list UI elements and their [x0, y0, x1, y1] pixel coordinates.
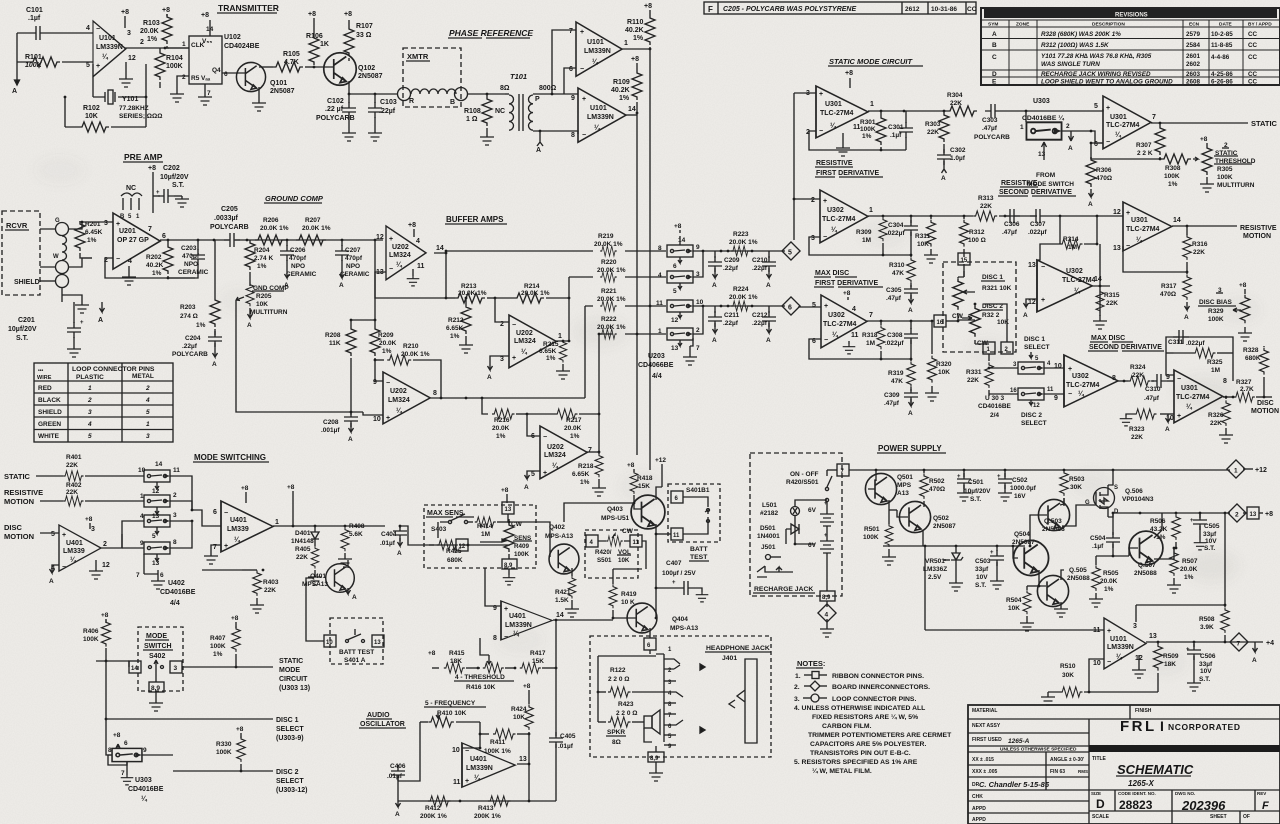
box13 +8 — [501, 487, 514, 522]
svg-text:R213: R213 — [461, 283, 477, 290]
svg-text:A: A — [908, 410, 913, 417]
svg-text:LM339: LM339 — [227, 526, 249, 533]
NOTES title — [796, 659, 825, 668]
svg-text:+8: +8 — [113, 732, 121, 739]
svg-text:U202: U202 — [547, 444, 564, 451]
svg-text:V₅₅: V₅₅ — [202, 38, 212, 45]
svg-text:9: 9 — [140, 540, 144, 547]
row3/4 outputs — [693, 305, 785, 334]
svg-text:R324: R324 — [1130, 364, 1146, 371]
resistor R311 — [915, 216, 938, 263]
svg-text:STATIC: STATIC — [279, 658, 303, 665]
svg-text:U101: U101 — [1110, 636, 1127, 643]
svg-text:D: D — [1096, 797, 1105, 811]
RESISTIVE MOTION input — [4, 488, 144, 506]
svg-text:−: − — [1177, 376, 1181, 383]
svg-text:202396: 202396 — [1181, 798, 1226, 813]
resistor R313 — [973, 195, 1037, 221]
svg-text:13: 13 — [1028, 262, 1036, 269]
resistor R408 — [338, 523, 365, 567]
svg-text:PLASTIC: PLASTIC — [76, 374, 104, 381]
capacitor C407 — [655, 560, 709, 602]
svg-text:1%: 1% — [1168, 181, 1178, 188]
svg-text:8: 8 — [571, 132, 575, 139]
svg-text:2: 2 — [811, 197, 815, 204]
svg-text:−: − — [824, 337, 828, 344]
loop connector circle R — [398, 88, 415, 106]
svg-text:77.28KHZ: 77.28KHZ — [119, 105, 149, 112]
threshold row R415 — [428, 650, 479, 673]
U401 pin7 wire — [204, 545, 221, 564]
svg-text:470Ω: 470Ω — [1160, 291, 1176, 298]
resistor R110 — [625, 3, 655, 49]
svg-text:1%: 1% — [213, 651, 223, 658]
svg-text:MAX DISC: MAX DISC — [815, 270, 849, 277]
wire pin3 vertical from diamond5 — [794, 93, 816, 240]
svg-text:−: − — [386, 380, 390, 387]
resistor R508 — [1199, 605, 1229, 642]
svg-text:100K: 100K — [1164, 173, 1180, 180]
row2 bus — [569, 276, 666, 278]
svg-text:LOOP CONNECTOR PINS: LOOP CONNECTOR PINS — [72, 366, 155, 373]
svg-text:LM324: LM324 — [388, 397, 410, 404]
ground static A — [836, 133, 850, 156]
svg-text:11-8-85: 11-8-85 — [1211, 42, 1233, 49]
op-amp U301 disc motion — [1166, 370, 1227, 423]
svg-text:1%: 1% — [450, 333, 460, 340]
transistor Q403 — [564, 495, 665, 529]
MAX SENS title — [426, 510, 474, 517]
svg-text:U102: U102 — [224, 34, 241, 41]
wire R406 node down — [105, 661, 112, 755]
title block frame — [968, 705, 1280, 824]
svg-text:−: − — [1126, 243, 1130, 250]
svg-text:2608: 2608 — [1186, 79, 1201, 86]
box 8,9 recharge — [820, 591, 835, 607]
Q101 emitter ground — [252, 87, 266, 111]
svg-text:+8: +8 — [631, 56, 639, 63]
svg-text:CAPACITORS ARE 5% POLYESTER: CAPACITORS ARE 5% POLYESTER. — [810, 741, 926, 748]
resistor R417 — [514, 619, 558, 673]
resistor R328 — [1243, 346, 1269, 398]
svg-text:+8: +8 — [236, 726, 244, 733]
svg-text:−: − — [512, 322, 516, 329]
resistor R501 — [863, 500, 897, 565]
svg-text:.01µf: .01µf — [387, 773, 403, 780]
resistor R310 — [889, 254, 915, 287]
svg-text:R202: R202 — [146, 254, 162, 261]
svg-text:BATT: BATT — [690, 546, 708, 553]
svg-text:R122: R122 — [610, 667, 626, 674]
svg-text:33µf: 33µf — [975, 566, 989, 573]
svg-text:U302: U302 — [1072, 373, 1089, 380]
resistor R402 — [63, 482, 83, 506]
change strip F row — [704, 2, 977, 14]
svg-text:VR501: VR501 — [925, 558, 945, 565]
capacitor C307 — [1028, 209, 1123, 236]
svg-text:11K: 11K — [329, 340, 341, 347]
svg-text:1%: 1% — [1184, 574, 1194, 581]
svg-text:MULTITURN: MULTITURN — [250, 309, 288, 316]
U102 vss ground — [198, 84, 212, 105]
svg-text:20.0K: 20.0K — [564, 425, 582, 432]
J501 jack — [761, 544, 781, 560]
svg-text:R205: R205 — [256, 293, 272, 300]
FROM MODE SWITCH — [1027, 172, 1074, 188]
capacitor C301 — [888, 111, 913, 150]
svg-text:R325: R325 — [1207, 359, 1223, 366]
svg-text:6V: 6V — [808, 507, 817, 514]
svg-text:A: A — [352, 594, 357, 601]
svg-text:SPKR: SPKR — [607, 729, 625, 736]
resistor R107 — [344, 11, 373, 61]
svg-text:6: 6 — [160, 572, 164, 579]
svg-text:MOTION: MOTION — [1251, 408, 1279, 415]
svg-text:C211: C211 — [724, 312, 740, 319]
svg-text:1: 1 — [558, 333, 562, 340]
svg-text:+8: +8 — [201, 12, 209, 19]
transformer T101 — [500, 72, 557, 131]
svg-text:1 Ω: 1 Ω — [466, 116, 478, 123]
svg-text:5: 5 — [531, 471, 535, 478]
svg-text:+: + — [389, 236, 393, 243]
svg-text:.47µf: .47µf — [884, 400, 900, 407]
svg-text:2.74 K: 2.74 K — [254, 255, 273, 262]
op-amp U101 LM339N — [86, 21, 144, 77]
svg-text:BOARD INNERCONNECTORS.: BOARD INNERCONNECTORS. — [832, 684, 930, 691]
C504 node to Q507 base — [1096, 555, 1129, 558]
capacitor C304 — [886, 216, 918, 255]
svg-text:8: 8 — [493, 635, 497, 642]
svg-text:20.0K 1%: 20.0K 1% — [594, 241, 623, 248]
svg-text:.01µf: .01µf — [380, 540, 396, 547]
svg-text:LM339N: LM339N — [505, 622, 532, 629]
title PHASE REFERENCE — [448, 28, 533, 38]
svg-text:RECHARGE JACK: RECHARGE JACK — [754, 586, 813, 593]
capacitor C502 — [997, 470, 1037, 501]
diamond 6 connector — [782, 297, 800, 315]
svg-text:2601: 2601 — [1186, 53, 1201, 60]
svg-text:7: 7 — [148, 226, 152, 233]
svg-text:R105: R105 — [283, 51, 300, 58]
svg-text:RESISTIVE: RESISTIVE — [1001, 180, 1038, 187]
svg-text:R315: R315 — [1104, 292, 1120, 299]
svg-text:S401B1: S401B1 — [686, 487, 710, 494]
svg-text:10K: 10K — [513, 714, 525, 721]
svg-text:TLC-27M4: TLC-27M4 — [823, 321, 857, 328]
svg-text:3: 3 — [91, 526, 95, 533]
svg-text:FINISH: FINISH — [1135, 708, 1152, 714]
svg-text:+: + — [1126, 210, 1130, 217]
svg-text:GREEN: GREEN — [38, 421, 61, 428]
svg-text:R408: R408 — [349, 523, 365, 530]
svg-text:U302: U302 — [827, 207, 844, 214]
svg-text:.022µf: .022µf — [1186, 340, 1205, 347]
svg-text:A: A — [712, 282, 717, 289]
resistor R103 — [140, 7, 172, 48]
svg-text:1: 1 — [275, 519, 279, 526]
pin5 A arrow — [524, 471, 540, 491]
svg-text:15K: 15K — [638, 483, 650, 490]
svg-text:10V: 10V — [1200, 668, 1212, 675]
box4 connector — [586, 535, 598, 547]
svg-text:1: 1 — [1234, 468, 1238, 475]
svg-text:C204: C204 — [185, 335, 201, 342]
U202 ground comp 2 — [373, 372, 437, 424]
resistor R105 — [259, 51, 315, 72]
STATIC MODE CIRCUIT dest — [279, 658, 310, 692]
svg-text:.022µf: .022µf — [1028, 229, 1047, 236]
diamond 2 +8 — [1228, 504, 1273, 522]
svg-text:10: 10 — [326, 640, 333, 646]
svg-text:MPS-U51: MPS-U51 — [601, 515, 630, 522]
svg-text:CW: CW — [622, 528, 634, 535]
paper noise — [0, 0, 1, 1]
op-amp U202 ground comp 1 — [376, 222, 444, 286]
U401 disc out to row3 — [100, 521, 144, 548]
svg-text:R223: R223 — [733, 231, 749, 238]
svg-text:2612: 2612 — [905, 6, 920, 13]
node A below T101 — [536, 131, 543, 154]
svg-text:NPO: NPO — [291, 263, 305, 270]
svg-text:U402: U402 — [168, 580, 185, 587]
switch column box2 — [658, 271, 700, 295]
svg-text:CODE IDENT. NO.: CODE IDENT. NO. — [1118, 791, 1156, 796]
+8 preamp — [148, 165, 156, 213]
svg-text:R508: R508 — [1199, 616, 1215, 623]
svg-text:A: A — [766, 337, 771, 344]
svg-text:R220: R220 — [601, 259, 617, 266]
svg-text:8Ω: 8Ω — [612, 739, 621, 746]
box 8,9 headphone — [648, 746, 664, 781]
SCHEMATIC title — [1116, 762, 1194, 788]
svg-text:+: + — [1177, 413, 1181, 420]
svg-text:D: D — [992, 71, 997, 78]
battery 1 — [808, 501, 834, 534]
svg-text:3: 3 — [811, 235, 815, 242]
pin12 ground stub — [119, 62, 133, 87]
svg-text:A: A — [247, 322, 252, 329]
revision row C — [992, 53, 1258, 68]
resistor R202 — [146, 240, 173, 278]
svg-text:A: A — [98, 317, 103, 324]
resistor R403 — [242, 570, 279, 613]
wire static out STATIC — [1151, 119, 1278, 128]
note 4 — [794, 705, 952, 757]
svg-text:.1µf: .1µf — [1092, 543, 1104, 550]
svg-text:U303: U303 — [1033, 98, 1050, 105]
svg-text:S402: S402 — [149, 653, 165, 660]
svg-text:A: A — [348, 436, 353, 443]
resistor R222 — [597, 316, 626, 339]
svg-text:SECOND DERIVATIVE: SECOND DERIVATIVE — [1089, 344, 1162, 351]
svg-text:470Ω: 470Ω — [1096, 175, 1112, 182]
svg-text:2/4: 2/4 — [990, 412, 999, 419]
svg-text:2: 2 — [173, 492, 177, 499]
svg-text:Vₐₐ: Vₐₐ — [201, 75, 211, 82]
capacitor C210 — [752, 251, 776, 289]
U202#1 feedback loop — [375, 252, 447, 300]
svg-text:3: 3 — [88, 409, 92, 416]
svg-text:.1µf: .1µf — [28, 15, 41, 22]
svg-text:APPD: APPD — [972, 806, 986, 812]
svg-text:Q401: Q401 — [310, 573, 326, 580]
svg-text:+: + — [504, 606, 508, 613]
svg-text:+8: +8 — [121, 9, 129, 16]
Q503 emitter to gate — [1062, 505, 1096, 526]
resistor R312 — [960, 216, 986, 254]
svg-text:6: 6 — [213, 509, 217, 516]
STATIC input — [4, 472, 144, 481]
svg-text:BLACK: BLACK — [38, 397, 61, 404]
svg-text:(U303-12): (U303-12) — [276, 787, 308, 794]
DISC 1 label — [981, 274, 1012, 292]
U302 second deriv out — [1092, 244, 1110, 316]
svg-text:5: 5 — [86, 62, 90, 69]
title PRE AMP — [123, 152, 163, 162]
svg-text:1M: 1M — [862, 237, 871, 244]
svg-text:R224: R224 — [733, 286, 749, 293]
svg-text:20.0K 1%: 20.0K 1% — [302, 225, 331, 232]
svg-text:20.0K: 20.0K — [1180, 566, 1198, 573]
recharge contacts — [757, 566, 793, 577]
svg-text:100K: 100K — [1217, 174, 1233, 181]
svg-text:13: 13 — [505, 507, 512, 513]
svg-text:+12: +12 — [655, 457, 666, 464]
svg-text:D: D — [1114, 509, 1119, 515]
svg-text:6.65K: 6.65K — [539, 348, 557, 355]
DISC 2 SELECT switch — [989, 387, 1054, 427]
svg-text:7: 7 — [696, 345, 700, 352]
max disc feedback loop — [809, 339, 912, 360]
svg-text:F: F — [1262, 800, 1269, 812]
svg-text:BY / APPD: BY / APPD — [1248, 22, 1272, 28]
svg-text:1: 1 — [624, 40, 628, 47]
headphone jack dashed box — [590, 636, 771, 757]
DISC pots dashed box — [943, 262, 1016, 352]
svg-text:SELECT: SELECT — [1024, 344, 1050, 351]
resistor R318 — [862, 321, 885, 359]
svg-text:2: 2 — [145, 385, 150, 392]
svg-text:METAL: METAL — [132, 373, 154, 380]
svg-text:C503: C503 — [975, 558, 991, 565]
svg-text:−: − — [580, 66, 584, 73]
resistor R218 — [572, 452, 606, 496]
MAX SENS dashed box — [424, 505, 536, 568]
svg-text:R410 10K: R410 10K — [437, 710, 467, 717]
svg-text:1M: 1M — [866, 340, 875, 347]
capacitor C102 — [316, 94, 356, 141]
svg-text:R203: R203 — [180, 304, 196, 311]
svg-text:D501: D501 — [760, 525, 776, 532]
svg-text:TLC-27M4: TLC-27M4 — [1106, 122, 1140, 129]
svg-text:+8: +8 — [523, 683, 531, 690]
svg-text:TLC-27M4: TLC-27M4 — [1126, 226, 1160, 233]
svg-text:U101: U101 — [590, 105, 607, 112]
resistor R307 — [1136, 123, 1165, 159]
capacitor C205 — [210, 206, 249, 247]
svg-text:R222: R222 — [601, 316, 617, 323]
svg-text:R420/S501: R420/S501 — [786, 479, 819, 486]
size code row — [968, 790, 1280, 824]
svg-text:12: 12 — [1113, 209, 1121, 216]
resistor R221 — [597, 288, 626, 311]
svg-text:XXX ± .005: XXX ± .005 — [972, 769, 997, 775]
transistor Q102 — [314, 53, 383, 86]
R312 to box15 wire — [963, 254, 965, 265]
resistor R412 — [420, 796, 451, 820]
svg-text:MODE: MODE — [146, 633, 167, 640]
max disc 2nd out — [1118, 380, 1128, 383]
op-amp U101 supply comparator — [1093, 618, 1157, 669]
svg-text:+: + — [465, 778, 469, 785]
svg-text:10V: 10V — [1205, 538, 1217, 545]
svg-text:+8: +8 — [408, 222, 416, 229]
svg-text:Q.506: Q.506 — [1125, 488, 1143, 495]
wire R403 Q401 leftover — [202, 569, 264, 572]
svg-text:MPS: MPS — [897, 482, 912, 489]
svg-text:47K: 47K — [891, 378, 903, 385]
svg-text:+4: +4 — [1266, 640, 1274, 647]
svg-text:W: W — [53, 254, 59, 260]
resistor R315 — [1093, 289, 1120, 329]
max disc out bus — [867, 320, 933, 323]
U401 threshold comparator — [493, 601, 564, 642]
resistor R224 — [729, 286, 758, 311]
svg-text:U302: U302 — [828, 312, 845, 319]
capacitor C505 — [1190, 513, 1220, 552]
svg-text:+: + — [990, 550, 994, 556]
svg-text:14: 14 — [1094, 276, 1102, 283]
svg-text:RMS: RMS — [1078, 769, 1088, 774]
svg-text:MOTION: MOTION — [1243, 233, 1271, 240]
BATT TEST label — [689, 546, 709, 561]
svg-text:R110: R110 — [627, 19, 643, 26]
note 3 loop connector — [794, 694, 916, 703]
svg-text:11: 11 — [173, 467, 180, 474]
Q404 emitter down — [644, 628, 656, 654]
DISC BIAS pot R329 — [1198, 282, 1252, 341]
svg-text:680K: 680K — [447, 557, 463, 564]
svg-text:R216: R216 — [494, 417, 510, 424]
svg-text:A: A — [49, 578, 54, 585]
title STATIC MODE CIRCUIT — [828, 57, 923, 66]
svg-text:20.0K 1%: 20.0K 1% — [729, 239, 758, 246]
title RESISTIVE FIRST DERIVATIVE — [815, 160, 883, 177]
svg-text:NOTES:: NOTES: — [797, 659, 825, 668]
svg-text:2: 2 — [140, 39, 144, 46]
svg-text:R402: R402 — [66, 482, 82, 489]
svg-text:FIRST DERIVATIVE: FIRST DERIVATIVE — [816, 170, 879, 177]
svg-text:A: A — [908, 307, 913, 314]
svg-text:U401: U401 — [470, 756, 487, 763]
resistive motion out — [1172, 225, 1277, 240]
svg-text:3: 3 — [127, 30, 131, 37]
svg-text:100µf / 25V: 100µf / 25V — [662, 570, 696, 577]
U402 CD4016BE label — [136, 554, 196, 607]
wire U101 upper out — [622, 48, 651, 51]
svg-text:LM339N: LM339N — [584, 48, 611, 55]
svg-text:3.9K: 3.9K — [1200, 624, 1214, 631]
svg-text:1%: 1% — [152, 270, 162, 277]
svg-text:−: − — [465, 748, 469, 755]
resistor R510 — [1041, 659, 1104, 705]
loop connector circle B — [450, 88, 468, 107]
resistor R102 — [64, 96, 148, 132]
R508 chain from D — [1136, 513, 1226, 606]
first deriv feedback loop — [809, 237, 911, 256]
svg-text:U101: U101 — [99, 35, 116, 42]
